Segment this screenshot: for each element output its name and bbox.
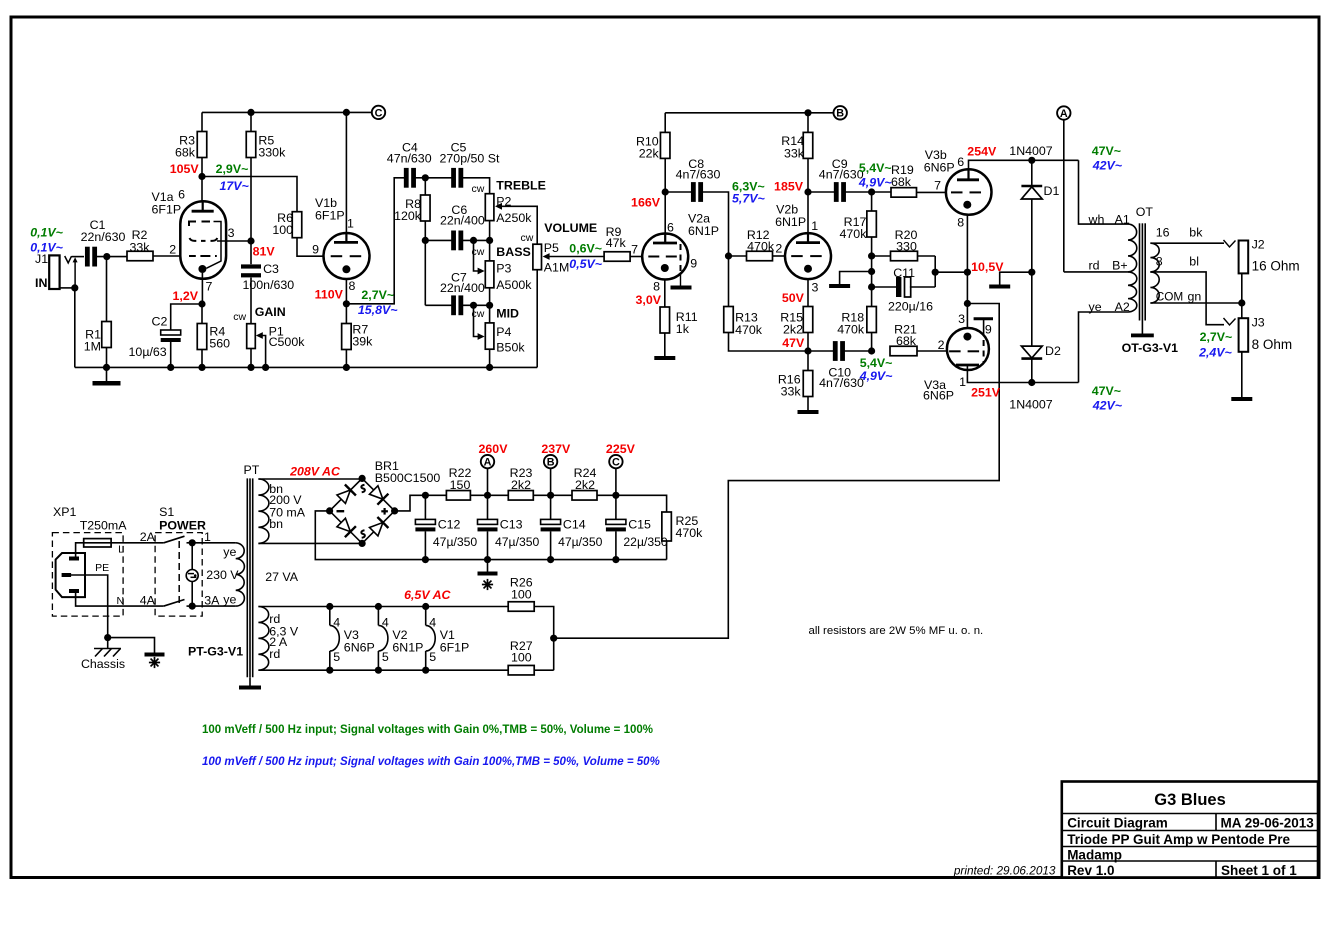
svg-text:47µ/350: 47µ/350 [558,535,603,549]
bus junction dot x=251 [247,364,254,371]
svg-text:6: 6 [957,155,964,169]
svg-text:47k: 47k [606,236,627,250]
bus junction dot x=202 [198,364,205,371]
plug pin PE [62,573,72,577]
wire L to fuse [76,543,84,557]
plug pin L [69,557,79,561]
capacitor C9 [808,191,836,193]
resistor R5 [246,132,256,158]
diode D2 1N4007 [1031,272,1033,346]
svg-text:22µ/350: 22µ/350 [623,535,668,549]
wire R14 top [807,113,809,133]
tube V1a 6F1P (pentode) [180,201,226,279]
S1 dashed box [155,533,202,617]
svg-text:16 Ohm: 16 Ohm [1252,259,1300,274]
heater V1 6F1P [422,603,429,610]
wire A to B+ [1063,119,1065,272]
wire cathode node down [966,272,968,328]
wire R6 to V1b grid pin 9 [297,238,324,257]
svg-text:3: 3 [958,312,965,326]
svg-text:8 Ohm: 8 Ohm [1252,337,1293,352]
wire R2 to V1a grid [153,255,181,257]
junction dot heater-ref tap [964,300,971,307]
resistor R8 [424,178,426,195]
capacitor C6 [451,231,456,251]
svg-text:560: 560 [209,337,230,351]
svg-text:237V: 237V [541,442,571,456]
junction dot J1 sleeve [71,284,78,291]
wire bias to cathode node [935,271,967,273]
pot P5 VOLUME [533,244,542,270]
wire R4 top [201,304,203,324]
svg-text:MID: MID [496,307,519,321]
svg-text:Madamp: Madamp [1067,848,1122,863]
wire COM to jack sleeve column [1150,302,1241,304]
svg-text:27 VA: 27 VA [265,570,299,584]
svg-text:9: 9 [690,256,697,270]
svg-text:6N6P: 6N6P [344,640,375,654]
V2a grid dashed [648,256,659,258]
PT primary winding [236,543,245,606]
svg-text:GAIN: GAIN [255,305,286,319]
svg-text:17V~: 17V~ [220,179,249,193]
wire bridge plus to filter [395,495,426,511]
wire V2a cathode to R11 [664,280,666,308]
BR1 diode (left-top edge) [336,484,356,504]
svg-text:ye: ye [223,545,236,559]
svg-text:7: 7 [206,279,213,293]
svg-text:6N6P: 6N6P [924,161,955,175]
svg-text:1M: 1M [84,340,101,354]
svg-text:6N1P: 6N1P [688,224,719,238]
svg-text:5: 5 [382,650,389,664]
jack sleeve column [1241,273,1243,318]
resistor R1 [106,257,108,322]
svg-text:166V: 166V [631,195,661,209]
svg-text:A2: A2 [1115,300,1130,314]
svg-text:wh: wh [1088,212,1105,226]
svg-text:120k: 120k [394,209,422,223]
neon lamp [189,539,196,546]
svg-text:Triode PP Guit Amp w Pentode P: Triode PP Guit Amp w Pentode Pre [1067,832,1290,847]
J1 shorting contact arrow [74,261,76,288]
capacitor C4 [404,168,409,188]
capacitor C13 [487,495,489,519]
wire 81V to C3 [250,241,252,264]
transformer OT core [1139,223,1141,320]
bus junction dot x=265.6 [262,364,269,371]
wire A1 [1079,160,1129,224]
svg-text:OT-G3-V1: OT-G3-V1 [1122,341,1179,355]
wire R14 to 185V node [807,158,809,233]
resistor R26 [508,602,534,612]
V3a cathode dot [963,333,971,341]
svg-text:2k2: 2k2 [511,478,531,492]
svg-text:47V~: 47V~ [1092,144,1121,158]
plug pin N [69,589,79,593]
svg-text:0,1V~: 0,1V~ [30,241,63,255]
svg-text:C12: C12 [438,518,461,532]
ground bus (preamp) [75,366,537,368]
junction dot C15 top [612,492,619,499]
svg-text:100: 100 [511,587,532,601]
pot P2 TREBLE [485,194,494,221]
svg-text:BASS: BASS [496,245,530,259]
wire R8 col down to C7 [424,240,426,305]
node C rail (top) [202,111,372,113]
svg-text:4n7/630: 4n7/630 [676,168,721,182]
wire 105V node to R6 [202,177,297,212]
wire pin3 to 81V node [217,240,251,242]
resistor R22 [446,491,470,501]
svg-text:A500k: A500k [496,278,532,292]
capacitor C2 (electrolytic) [161,330,181,335]
svg-text:3: 3 [812,280,819,294]
junction dot C6/P3 wiper [470,237,477,244]
svg-text:rd: rd [1089,258,1100,272]
node B circle [834,106,847,119]
heater V2 6N1P [375,603,382,610]
bus junction dot x=489.6 [486,364,493,371]
svg-text:1N4007: 1N4007 [1009,144,1053,158]
svg-text:22n/400: 22n/400 [440,214,485,228]
wire 16 tap to J2 [1150,242,1224,244]
svg-text:C14: C14 [563,518,586,532]
junction dot V1b anode [343,109,350,116]
tube V3b 6N6P [946,169,992,215]
wire V1b anode to rail [345,112,347,233]
svg-text:2k2: 2k2 [575,478,595,492]
junction dot ground tap [868,268,875,275]
tube V3a 6N6P [947,328,989,370]
junction dot bridge bottom [359,540,366,547]
svg-text:150: 150 [450,478,471,492]
svg-text:1k: 1k [676,322,690,336]
BR1 diode (left-bottom edge) [336,517,356,537]
svg-text:PT: PT [244,463,260,477]
svg-text:2,4V~: 2,4V~ [1198,346,1232,360]
svg-text:A: A [484,457,492,469]
svg-text:B500C1500: B500C1500 [375,471,441,485]
svg-text:1,2V: 1,2V [173,289,199,303]
svg-text:ye: ye [223,593,236,607]
P5 wiper from R9 [543,253,550,260]
resistor R12 [729,255,747,257]
junction dot C9/R17/R19 [868,188,875,195]
svg-text:A: A [1060,108,1068,120]
svg-text:68k: 68k [175,146,196,160]
svg-text:8: 8 [1156,255,1163,269]
wire C8 to R12/R13 node [701,192,728,256]
V2b grid dashed [791,255,803,257]
wire R15 to 47V node [807,333,809,352]
svg-text:470k: 470k [840,227,868,241]
svg-text:4,9V~: 4,9V~ [859,369,893,383]
svg-text:bk: bk [1189,226,1203,240]
tube V2b 6N1P [785,233,831,279]
V3b anode bar [957,178,979,181]
svg-text:cw: cw [233,311,246,323]
svg-text:4A: 4A [140,594,156,608]
L ground near R17 [840,272,872,285]
svg-text:gn: gn [1188,290,1202,304]
svg-text:4n7/630: 4n7/630 [819,168,864,182]
resistor R6 [292,212,302,238]
svg-text:33k: 33k [781,385,802,399]
svg-text:4: 4 [429,616,436,630]
node 105V [198,173,205,180]
V1a g3 (dashed) [189,222,210,227]
svg-text:J3: J3 [1252,315,1265,329]
V1b grid dashed [331,255,343,257]
svg-text:470k: 470k [676,526,704,540]
svg-text:6F1P: 6F1P [440,640,470,654]
svg-text:POWER: POWER [159,519,206,533]
svg-text:cw: cw [521,232,534,244]
svg-text:8: 8 [349,279,356,293]
V3b cathode dot [963,201,971,209]
wire R9 to V2a grid [630,256,642,258]
V2b anode bar [796,241,820,244]
svg-text:6: 6 [178,188,185,202]
wire C7 right [462,304,490,306]
svg-text:42V~: 42V~ [1092,399,1122,413]
PT HV secondary [258,479,269,543]
junction dot R14 top [804,109,811,116]
svg-text:6: 6 [667,221,674,235]
svg-text:10µ/63: 10µ/63 [129,345,167,359]
resistor R2 [127,251,153,261]
svg-text:47V~: 47V~ [1092,384,1121,398]
wire V2b cathode to R15 [807,279,809,307]
C11/R20 right column [934,256,936,287]
node 47V [804,347,811,354]
svg-text:S1: S1 [159,505,174,519]
svg-text:22k: 22k [639,147,660,161]
junction dot C7/P4 wiper [470,302,477,309]
filter rail [425,494,446,496]
BR1 diode (bottom-right edge) [368,517,388,537]
V3a internal shield dashed [983,340,985,362]
junction dot R1 top [103,253,110,260]
mid ground [1000,272,1032,284]
PT heater secondary [258,607,269,671]
junction dot C15 bottom [612,556,619,563]
wire R11 to ground [664,333,666,356]
svg-text:33k: 33k [784,146,805,160]
J1 tip contact chevron [65,256,72,263]
node A supply [481,455,494,468]
svg-text:208V AC: 208V AC [289,465,341,479]
wire C9 to R17 node [844,191,871,193]
wire R3 to 105V node [201,158,203,203]
svg-text:1: 1 [811,219,818,233]
svg-text:6N1P: 6N1P [775,215,806,229]
svg-text:470k: 470k [837,323,865,337]
svg-text:22n/630: 22n/630 [81,230,126,244]
tube V2a 6N1P [642,234,688,280]
jack J3 [1239,318,1249,352]
pot P3 BASS [485,261,494,288]
V2a cathode dot [661,264,669,272]
svg-text:A1M: A1M [544,261,569,275]
XP1 dashed box [52,533,123,617]
svg-text:PT-G3-V1: PT-G3-V1 [188,645,243,659]
junction dot C13 top [484,492,491,499]
svg-text:C500k: C500k [269,335,306,349]
svg-text:100: 100 [511,651,532,665]
svg-text:39k: 39k [352,335,373,349]
resistor R24 [572,491,597,501]
svg-text:PE: PE [95,562,109,574]
svg-text:IN: IN [35,276,47,290]
resistor R20 [872,255,891,257]
resistor R18 [867,307,877,333]
wire V3b anode up/right [969,160,1079,169]
svg-text:D2: D2 [1045,344,1061,358]
V1a g3-cathode tie [206,222,221,269]
svg-text:COM: COM [1156,290,1184,304]
svg-text:2A: 2A [140,530,156,544]
svg-text:1: 1 [347,217,354,231]
resistor R19 [872,191,891,193]
svg-text:TREBLE: TREBLE [496,179,546,193]
capacitor C7 [451,295,456,315]
svg-text:5: 5 [429,650,436,664]
svg-text:330: 330 [896,239,917,253]
P4 wiper [474,305,480,336]
svg-text:P3: P3 [496,262,511,276]
svg-text:185V: 185V [774,180,804,194]
capacitor C1 [85,247,90,267]
pot P1 GAIN [247,324,256,349]
resistor R14 [803,132,813,158]
svg-text:J2: J2 [1252,237,1265,251]
svg-text:9: 9 [312,243,319,257]
BR1 diode (top-right edge) [368,484,388,504]
svg-text:0,5V~: 0,5V~ [569,257,602,271]
svg-text:2,7V~: 2,7V~ [361,288,394,302]
junction dot bridge right [391,507,398,514]
svg-text:470k: 470k [747,239,775,253]
wire R3 top [201,112,203,131]
junction dot bridge left [326,507,333,514]
svg-text:47µ/350: 47µ/350 [433,535,478,549]
switch link dashed [178,541,180,603]
chassis symbol [107,638,109,649]
svg-text:100: 100 [272,223,293,237]
V2a anode bar [653,242,677,245]
wire to C6 [425,239,452,241]
svg-text:Rev 1.0: Rev 1.0 [1067,863,1114,878]
wire cathode node to tone stack [346,178,404,304]
star ground (chassis) [145,653,165,657]
resistor R13 [728,256,730,307]
bus junction dot x=346.4 [343,364,350,371]
OT core ground [1141,321,1143,334]
resistor R21 [890,346,917,356]
svg-text:Circuit Diagram: Circuit Diagram [1067,816,1168,831]
svg-text:105V: 105V [170,162,200,176]
junction dot C10/R18/R21 [868,347,875,354]
svg-text:cw: cw [471,183,484,195]
svg-text:C2: C2 [152,315,168,329]
wire R13 to 47V node [729,333,809,352]
star ground (filter) [487,560,489,572]
svg-text:A250k: A250k [496,211,532,225]
heater top wire [258,606,508,608]
wire HV bottom to bridge [258,542,362,544]
wire N [76,593,164,606]
resistor R27 [508,665,534,675]
resistor R7 [345,304,347,324]
svg-text:G3 Blues: G3 Blues [1154,791,1226,809]
svg-text:16: 16 [1156,226,1170,240]
junction dot P3 bottom [486,302,493,309]
svg-text:6F1P: 6F1P [152,202,182,216]
wire J1 tip to C1 [72,256,85,258]
resistor R4 [197,324,207,350]
resistor R10 [660,132,670,158]
svg-text:7: 7 [631,242,638,256]
switch S1 bottom contact [164,600,185,607]
svg-text:B: B [836,108,844,120]
svg-text:0,1V~: 0,1V~ [30,225,63,239]
P3 wiper [474,240,480,271]
node 166V [662,188,669,195]
svg-text:C11: C11 [893,266,915,280]
junction dot P2 bottom [486,237,493,244]
node C circle [372,106,385,119]
svg-text:2: 2 [775,242,782,256]
svg-text:T250mA: T250mA [80,519,128,533]
svg-text:2k2: 2k2 [783,323,803,337]
capacitor C8 [665,191,692,193]
svg-text:470k: 470k [735,323,763,337]
J1 sleeve wire [60,287,76,289]
transformer OT secondary winding [1150,243,1159,272]
heater V3 6N6P [326,603,333,610]
resistor R23 [508,491,533,501]
svg-text:Sheet 1 of 1: Sheet 1 of 1 [1221,863,1297,878]
svg-text:47µ/350: 47µ/350 [495,535,540,549]
svg-text:220µ/16: 220µ/16 [888,300,933,314]
transformer OT primary winding [1128,224,1137,272]
wire C5 to P2 [462,178,490,194]
junction dot C14 top [547,492,554,499]
V1a g2 (screen) [190,238,218,241]
svg-text:50V: 50V [782,291,805,305]
wire V3a anode down/right [967,370,1078,383]
svg-text:2,9V~: 2,9V~ [216,162,249,176]
V1a cathode wire pin 7 [201,273,203,304]
junction dot COM [1238,299,1245,306]
wire to C2 [171,304,202,330]
heater bottom wire [258,669,508,671]
resistor R16 [807,351,809,371]
junction dot D1/D2 mid [1028,269,1035,276]
capacitor C3 [241,264,261,268]
svg-text:8: 8 [653,280,660,294]
wire P3 bottom to P4 top [489,288,491,323]
mains plug XP1 [56,553,85,597]
svg-text:OT: OT [1136,205,1154,219]
svg-text:7: 7 [934,179,941,193]
svg-text:D1: D1 [1044,184,1060,198]
resistor R11 [660,307,670,333]
svg-text:1: 1 [959,375,966,389]
svg-text:330k: 330k [258,146,286,160]
